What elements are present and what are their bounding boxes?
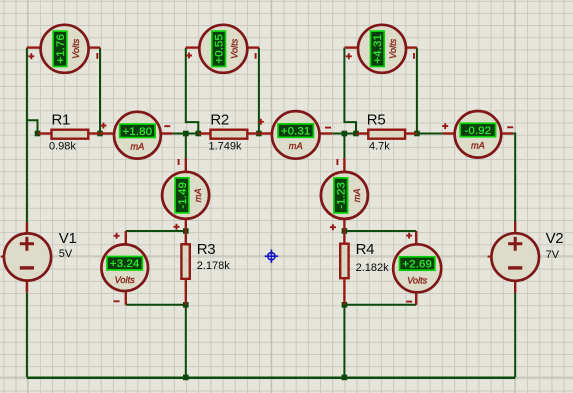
svg-text:2.178k: 2.178k — [197, 260, 231, 272]
svg-text:Volts: Volts — [388, 38, 398, 58]
svg-text:Volts: Volts — [407, 275, 427, 285]
wire: VM2 plus lead down with jog into node D — [186, 48, 199, 134]
junction node F (AM5 branch) — [342, 131, 348, 137]
svg-text:+2.69: +2.69 — [402, 259, 432, 271]
svg-text:mA: mA — [289, 141, 303, 151]
svg-text:+1.80: +1.80 — [123, 126, 153, 138]
wire: node F down to AM5 top — [343, 134, 345, 159]
resistor R3 — [181, 231, 230, 305]
junction node I (AM4 minus / R3 top) — [183, 228, 189, 234]
voltmeter VM5 (+2.69 Volts) — [393, 231, 441, 305]
voltmeter VM1 (+1.76 Volts) — [27, 25, 100, 73]
wire: AM3 right to V2 top — [513, 134, 515, 222]
junction bus right tap — [342, 375, 348, 381]
ammeter AM1 (+1.80 mA) — [100, 112, 173, 159]
svg-text:+1.76: +1.76 — [55, 34, 67, 64]
wire: V1 bottom down to bus — [26, 293, 28, 378]
wire: VM1 minus lead vertical down to node B — [99, 48, 101, 134]
wire: AM1 right to node C — [173, 133, 186, 135]
svg-text:R3: R3 — [197, 241, 216, 258]
svg-text:1.749k: 1.749k — [209, 141, 243, 153]
svg-text:V2: V2 — [546, 230, 564, 247]
wire: ground bus bottom — [27, 376, 515, 379]
svg-text:Volts: Volts — [115, 275, 135, 285]
wire: VM3 plus lead down with jog into node G — [344, 48, 356, 134]
junction node L (R4 bottom) — [342, 302, 348, 308]
ammeter AM3 (-0.92 mA) — [442, 111, 513, 158]
wire: jog from x27 into node A — [27, 120, 38, 133]
wire: AM2 right to node F — [332, 133, 344, 135]
battery V2 (7V) — [488, 222, 564, 293]
ammeter AM4 (-1.49 mA vertical) — [162, 158, 209, 231]
junction node E (R2 right / AM2 plus) — [256, 131, 262, 137]
svg-text:mA: mA — [131, 141, 145, 151]
junction node H (R5 right / AM3 plus) — [414, 131, 420, 137]
junction node J (R3 bottom) — [183, 302, 189, 308]
wire: VM3 minus lead vertical down to node H — [416, 48, 418, 134]
svg-text:R2: R2 — [210, 112, 229, 129]
wire: node F to node G — [344, 133, 356, 135]
junction node A (R1 left) — [35, 131, 41, 137]
svg-text:+3.24: +3.24 — [110, 258, 140, 270]
wire: AM5 bottom node K to VM5 top — [344, 230, 416, 232]
wire: VM1 plus lead vertical down to V1 top — [26, 48, 28, 222]
wire: VM2 minus lead vertical down to node E — [258, 48, 260, 134]
svg-text:4.7k: 4.7k — [369, 141, 390, 153]
svg-text:5V: 5V — [59, 248, 73, 260]
svg-text:V1: V1 — [59, 230, 77, 247]
svg-text:R4: R4 — [356, 241, 375, 258]
svg-text:7V: 7V — [546, 249, 560, 261]
wire: node J down to ground bus — [185, 305, 187, 378]
svg-text:mA: mA — [471, 141, 485, 151]
svg-text:R5: R5 — [367, 112, 386, 129]
wire: V2 bottom down to bus — [514, 293, 516, 378]
wire: node L down to ground bus — [343, 305, 345, 378]
wire: AM4 bottom node I to VM4 top — [126, 230, 186, 232]
junction node D (R2 left) — [196, 131, 202, 137]
svg-text:+0.31: +0.31 — [281, 126, 311, 138]
resistor R2 — [198, 112, 259, 153]
battery V1 (5V) — [1, 222, 77, 293]
ammeter AM2 (+0.31 mA) — [258, 111, 333, 159]
voltmeter VM4 (+3.24 Volts) — [101, 231, 148, 305]
junction bus left tap — [183, 375, 189, 381]
svg-text:-0.92: -0.92 — [465, 125, 492, 137]
origin marker — [265, 250, 278, 263]
ammeter AM5 (-1.23 mA vertical) — [321, 158, 368, 231]
junction node C (AM4 branch) — [183, 131, 189, 137]
svg-text:Volts: Volts — [71, 38, 81, 58]
svg-text:-1.49: -1.49 — [177, 182, 189, 209]
wire: node J to VM4 bottom — [126, 304, 186, 306]
voltmeter VM3 (+4.31 Volts) — [344, 25, 417, 73]
junction node G (R5 left) — [353, 131, 359, 137]
junction node B (R1 right / AM1 plus) — [97, 131, 103, 137]
wire: node H to AM3 left pin — [417, 133, 443, 135]
svg-text:0.98k: 0.98k — [49, 141, 76, 153]
svg-text:+4.31: +4.31 — [372, 34, 384, 64]
svg-text:R1: R1 — [52, 112, 71, 129]
junction node K (AM5 minus / R4 top) — [342, 228, 348, 234]
svg-text:2.182k: 2.182k — [356, 262, 390, 274]
resistor R4 — [340, 231, 389, 305]
resistor R1 — [38, 112, 101, 153]
wire: node C down to AM4 top — [185, 134, 187, 159]
wire: node L to VM5 bottom — [344, 304, 416, 306]
voltmeter VM2 (+0.55 Volts) — [186, 25, 259, 73]
wire: node C to node D — [186, 133, 199, 135]
svg-text:mA: mA — [352, 189, 362, 203]
svg-text:Volts: Volts — [230, 38, 240, 58]
svg-text:+0.55: +0.55 — [214, 34, 226, 64]
resistor R5 — [356, 112, 417, 153]
svg-text:mA: mA — [193, 188, 203, 202]
svg-text:-1.23: -1.23 — [336, 182, 348, 209]
